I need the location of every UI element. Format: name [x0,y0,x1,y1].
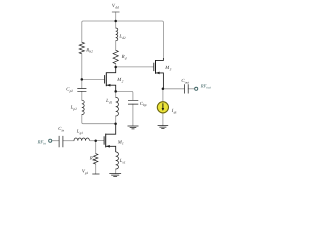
svg-text:s1: s1 [123,160,126,164]
svg-text:d: d [125,57,127,61]
svg-text:in: in [62,129,65,133]
svg-text:2: 2 [122,79,124,83]
svg-text:b1: b1 [93,158,97,162]
svg-text:d1: d1 [109,100,113,104]
svg-text:1: 1 [122,142,124,146]
svg-text:g1: g1 [85,171,89,175]
svg-text:dd: dd [115,6,119,10]
svg-text:b2: b2 [89,50,93,54]
svg-text:dc: dc [174,111,178,115]
svg-text:3: 3 [170,68,172,72]
svg-text:p2: p2 [69,89,74,93]
svg-text:d2: d2 [122,36,126,40]
svg-text:bp: bp [143,103,147,107]
svg-text:g1: g1 [80,131,84,135]
svg-text:in: in [43,142,46,146]
svg-text:p2: p2 [72,107,77,111]
